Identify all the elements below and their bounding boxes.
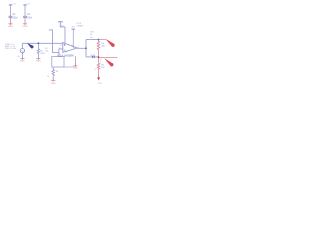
svg-text:2: 2	[59, 47, 60, 49]
svg-text:LM358: LM358	[77, 25, 84, 27]
svg-text:100k: 100k	[40, 53, 44, 55]
svg-text:GND: GND	[20, 61, 25, 63]
svg-text:R3: R3	[56, 71, 58, 73]
svg-text:GND: GND	[36, 61, 41, 63]
svg-text:GND: GND	[51, 83, 56, 85]
svg-text:2: 2	[95, 69, 96, 71]
svg-text:GND: GND	[98, 83, 103, 85]
svg-text:GND: GND	[8, 26, 13, 28]
svg-text:100n: 100n	[27, 17, 33, 19]
svg-text:LED1: LED1	[90, 55, 96, 57]
svg-text:IC1A LM358N: IC1A LM358N	[58, 53, 74, 57]
svg-text:8: 8	[72, 45, 73, 47]
svg-text:1k: 1k	[90, 34, 92, 36]
svg-text:3: 3	[60, 45, 61, 47]
svg-text:100n: 100n	[13, 17, 19, 19]
svg-text:1k: 1k	[47, 76, 49, 78]
svg-text:G1: G1	[17, 56, 20, 58]
svg-text:1: 1	[78, 46, 79, 48]
svg-text:10k: 10k	[45, 50, 48, 52]
svg-text:5%: 5%	[90, 37, 93, 39]
svg-text:1: 1	[100, 62, 101, 64]
svg-text:GND: GND	[73, 67, 78, 69]
svg-text:+5V: +5V	[60, 26, 64, 28]
svg-text:GND: GND	[23, 26, 28, 28]
svg-text:FREQ 1 kHz: FREQ 1 kHz	[5, 48, 16, 50]
